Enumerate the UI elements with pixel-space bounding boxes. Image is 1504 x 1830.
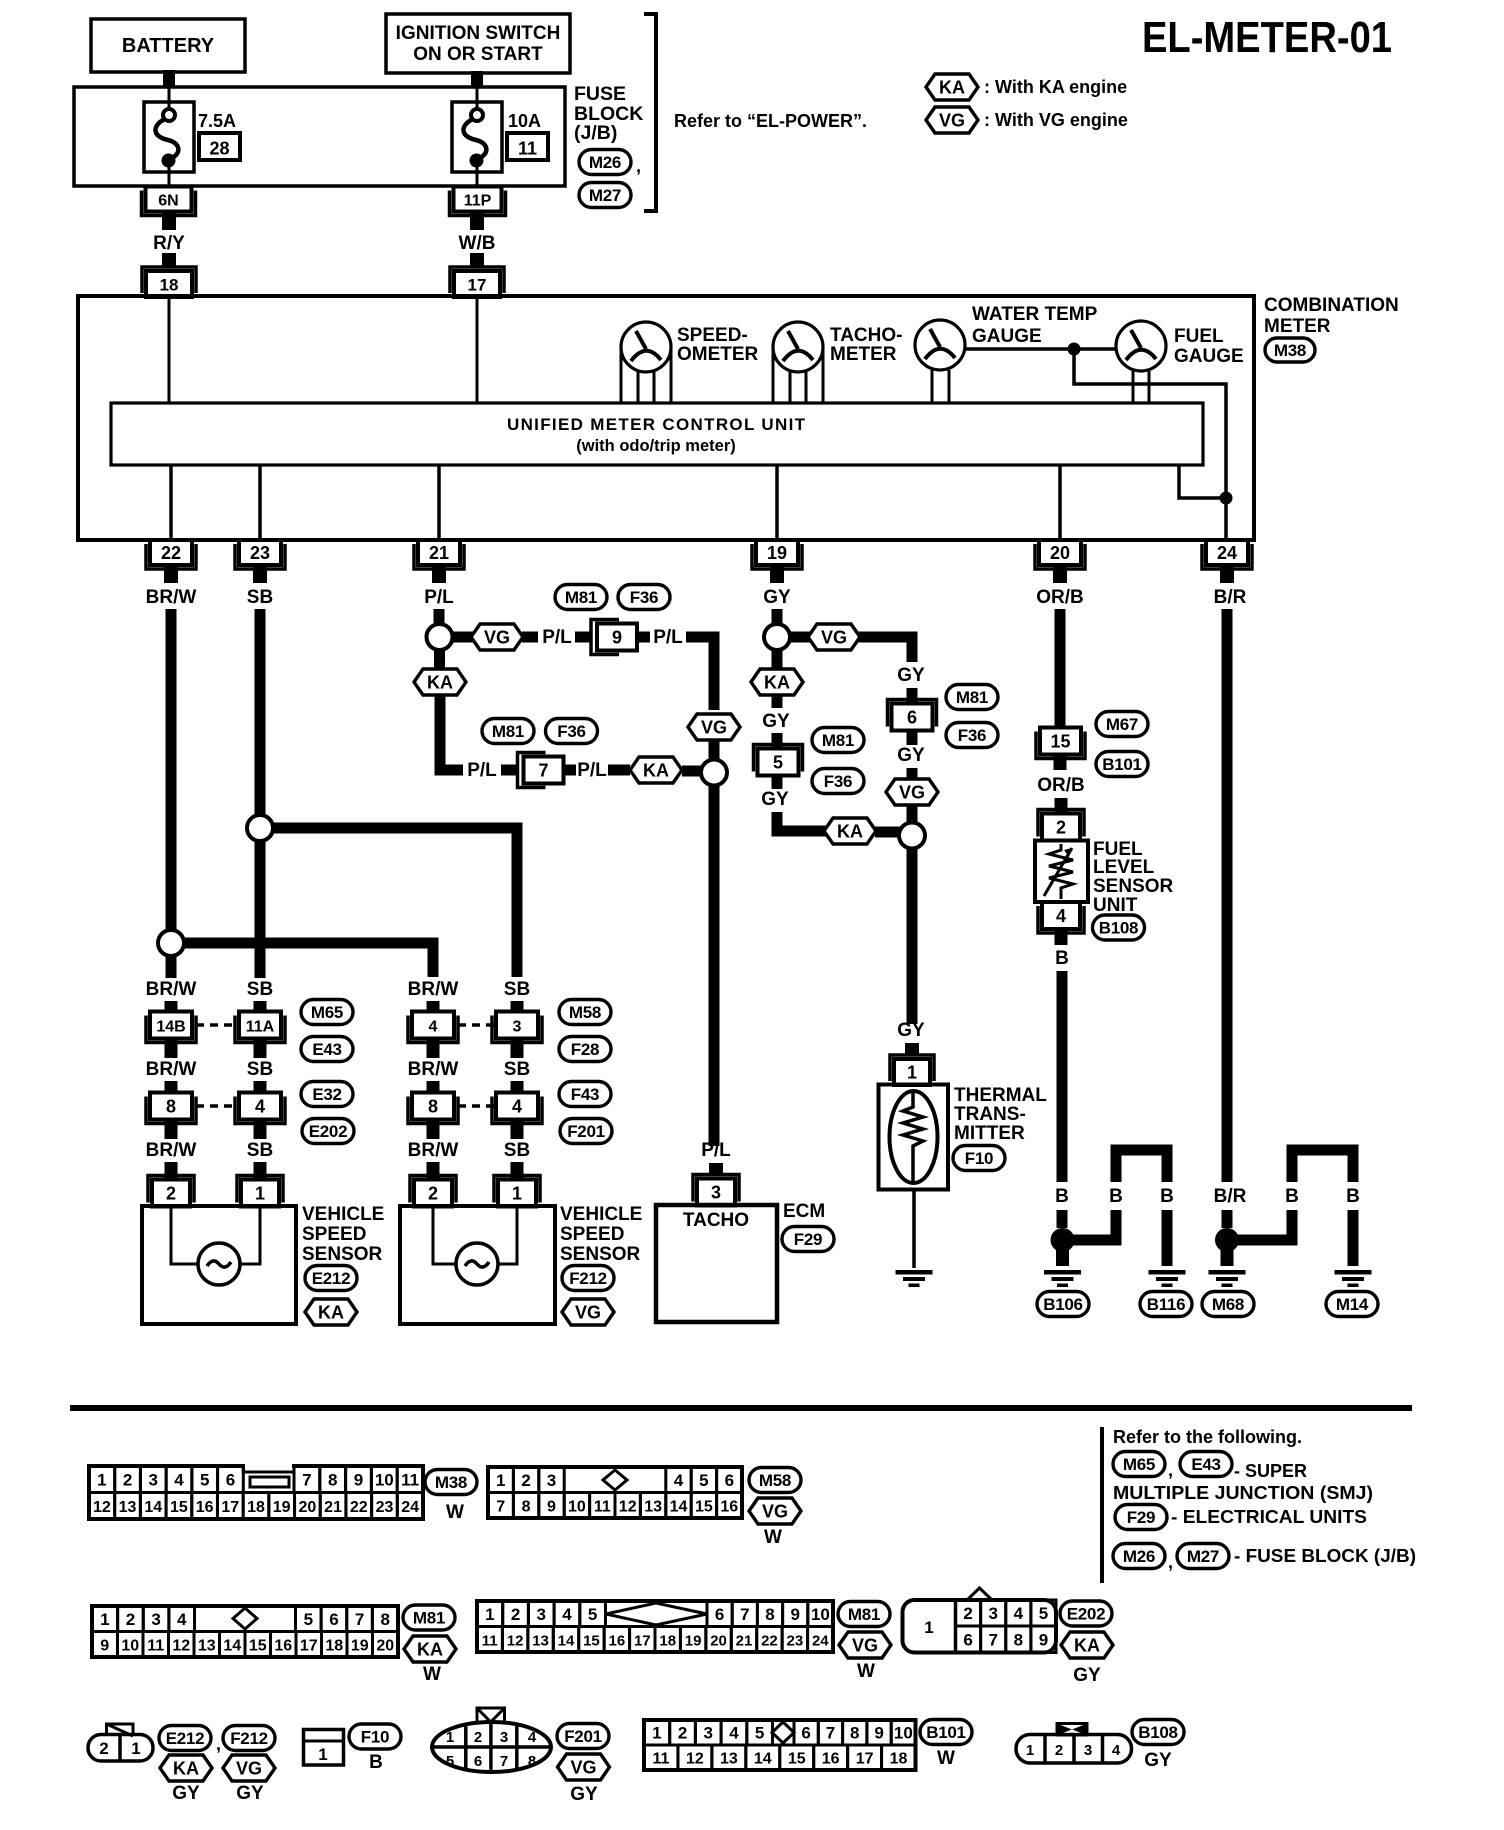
connector 21 on combination meter <box>414 540 464 569</box>
svg-text:KA: KA <box>318 1303 344 1323</box>
svg-text:5: 5 <box>200 1470 209 1489</box>
KA badge on GY branch <box>751 669 803 695</box>
svg-text:2: 2 <box>166 1184 176 1204</box>
svg-text:B/R: B/R <box>1214 587 1247 608</box>
svg-text:11: 11 <box>594 1498 611 1515</box>
badge E212 <box>305 1266 357 1291</box>
badge F201 smj <box>560 1119 612 1144</box>
svg-text:5: 5 <box>699 1471 708 1490</box>
svg-text:6: 6 <box>715 1605 724 1624</box>
badge M38 pinout <box>425 1470 477 1495</box>
svg-text:TRANS-: TRANS- <box>954 1104 1026 1125</box>
badge E32 <box>301 1082 353 1107</box>
svg-text:VG: VG <box>575 1303 601 1323</box>
svg-text:F10: F10 <box>361 1728 389 1747</box>
svg-text:M26: M26 <box>1123 1547 1155 1566</box>
svg-text:GY: GY <box>1073 1665 1101 1686</box>
svg-text:4: 4 <box>512 1097 522 1117</box>
dashed link 4-3 <box>458 1023 495 1027</box>
svg-text:21: 21 <box>429 543 449 563</box>
svg-text:3: 3 <box>513 1019 522 1036</box>
svg-text:10: 10 <box>894 1724 913 1743</box>
wire junction to connector 24 <box>1224 498 1228 538</box>
svg-text:6: 6 <box>963 1630 972 1649</box>
svg-text:GY: GY <box>172 1783 200 1804</box>
connector pinout M81KA grid <box>92 1606 398 1657</box>
svg-text:6: 6 <box>801 1724 810 1743</box>
wire stub below 15 <box>1054 755 1067 770</box>
svg-text:F29: F29 <box>1127 1508 1155 1527</box>
wire VG to junction circle <box>709 740 720 759</box>
junction circle P/L <box>427 624 453 650</box>
svg-text:FUEL: FUEL <box>1174 326 1224 347</box>
svg-text:VG: VG <box>821 628 847 648</box>
badge B108 <box>1093 915 1145 940</box>
svg-text:1: 1 <box>100 1610 109 1629</box>
wire label to connector 7 <box>501 765 518 776</box>
badge E202 smj <box>302 1119 354 1144</box>
svg-text:P/L: P/L <box>653 627 683 648</box>
wire KA down and right <box>440 695 463 770</box>
badge F36 right of 5 <box>812 769 864 794</box>
svg-text:5: 5 <box>755 1724 764 1743</box>
wire stub below 5 <box>772 776 783 789</box>
svg-text:2: 2 <box>428 1184 438 1204</box>
svg-text:24: 24 <box>812 1632 829 1649</box>
svg-text:W: W <box>446 1502 464 1523</box>
connector 19 on combination meter <box>752 540 802 569</box>
svg-text:2: 2 <box>474 1729 482 1746</box>
svg-text:B108: B108 <box>1138 1723 1177 1742</box>
svg-text:18: 18 <box>890 1751 908 1768</box>
svg-text:8: 8 <box>166 1097 176 1117</box>
badge KA M81 pinout <box>404 1636 456 1662</box>
svg-text:GAUGE: GAUGE <box>1174 346 1244 367</box>
wire label to connector 9 <box>575 632 592 643</box>
wire unified to connector 23 <box>258 465 262 538</box>
connector 11P on fuse block <box>450 187 506 216</box>
connector 23 on combination meter <box>235 540 285 569</box>
svg-text:Refer to “EL-POWER”.: Refer to “EL-POWER”. <box>674 111 867 131</box>
svg-text:15: 15 <box>249 1637 267 1654</box>
svg-text:6: 6 <box>329 1610 338 1629</box>
svg-text:16: 16 <box>822 1751 840 1768</box>
connector badge M26 <box>579 150 631 175</box>
wire stub to SMJ row1 col4 <box>511 1001 524 1013</box>
fuel gauge label <box>1174 326 1244 367</box>
ground B106 <box>1044 1270 1081 1287</box>
badge F10 <box>953 1146 1005 1171</box>
connector 7 M81-F36 <box>518 753 564 788</box>
svg-text:19: 19 <box>685 1632 702 1649</box>
badge M65 <box>301 1000 353 1025</box>
svg-text:VG: VG <box>484 628 510 648</box>
dashed link row2 right <box>458 1104 495 1108</box>
wire B down <box>1057 971 1068 1182</box>
wire stub to row2 col1 <box>165 1081 178 1094</box>
wire KA to GY junction <box>875 827 900 838</box>
svg-text:SB: SB <box>247 1140 273 1161</box>
svg-text:8: 8 <box>850 1724 859 1743</box>
svg-text:BR/W: BR/W <box>408 1059 459 1080</box>
svg-text:EL-METER-01: EL-METER-01 <box>1142 13 1392 62</box>
vss1 generator symbol <box>198 1243 240 1285</box>
svg-text:4: 4 <box>1014 1604 1024 1623</box>
svg-text:9: 9 <box>790 1605 799 1624</box>
svg-text:BR/W: BR/W <box>408 979 459 1000</box>
water temp gauge <box>915 320 965 370</box>
svg-text:R/Y: R/Y <box>153 233 185 254</box>
connector 5 M81-F36 <box>754 745 803 776</box>
svg-text:3: 3 <box>547 1471 556 1490</box>
svg-text:OR/B: OR/B <box>1037 775 1085 796</box>
badge F36 right of 6 <box>946 723 998 748</box>
svg-text:SENSOR: SENSOR <box>302 1244 383 1265</box>
svg-text:12: 12 <box>172 1637 190 1654</box>
tachometer gauge <box>773 322 823 372</box>
badge F201 pinout <box>557 1724 609 1749</box>
svg-text:SPEED-: SPEED- <box>677 325 748 346</box>
svg-text:4: 4 <box>174 1470 184 1489</box>
badge F212 <box>562 1266 614 1291</box>
svg-text:M81: M81 <box>565 588 597 607</box>
KA badge before junction <box>630 757 682 783</box>
svg-text:9: 9 <box>354 1470 363 1489</box>
connector 11A SMJ <box>235 1012 285 1043</box>
legend VG badge <box>926 107 978 133</box>
svg-text:8: 8 <box>765 1605 774 1624</box>
wire P/L down to tacho <box>709 785 720 1146</box>
svg-text:22: 22 <box>350 1499 368 1516</box>
svg-text:W: W <box>937 1748 955 1769</box>
connector 22 on combination meter <box>146 540 196 569</box>
svg-text:FUSE: FUSE <box>574 83 626 105</box>
svg-text:B: B <box>1055 1186 1069 1207</box>
svg-text:11: 11 <box>653 1751 670 1768</box>
svg-text:E202: E202 <box>1067 1605 1106 1624</box>
svg-text:3: 3 <box>988 1604 997 1623</box>
wire B to junction <box>1057 1210 1068 1228</box>
wire ignition to fuse block <box>471 71 483 88</box>
svg-text:2: 2 <box>99 1739 108 1758</box>
wire stub below SMJ row1 col1 <box>165 1039 178 1058</box>
badge M65 refer <box>1113 1452 1165 1477</box>
dashed link 14B-11A <box>196 1023 238 1027</box>
fuse F28 7.5A <box>144 88 194 187</box>
svg-text:5: 5 <box>773 753 783 773</box>
fuel level sensor label <box>1093 839 1174 916</box>
wire GY to VG hex <box>907 768 918 779</box>
junction circle P/L right <box>701 760 727 786</box>
wire stub below row2 col4 <box>511 1120 524 1139</box>
svg-text:M27: M27 <box>589 186 621 205</box>
svg-text:GY: GY <box>236 1783 264 1804</box>
connector 8 row2 <box>146 1093 196 1124</box>
svg-text:LEVEL: LEVEL <box>1093 857 1155 878</box>
svg-text:11: 11 <box>518 139 537 159</box>
svg-text:16: 16 <box>720 1498 738 1515</box>
connector 14B SMJ <box>146 1012 196 1043</box>
wire from junction down right to 24 column <box>1074 349 1226 498</box>
wire stub above tacho connector <box>709 1163 723 1176</box>
svg-text:16: 16 <box>274 1637 292 1654</box>
wire stub above 17 <box>470 253 484 268</box>
badge F28 <box>559 1037 611 1062</box>
wire stub to row3 col3 <box>427 1162 440 1178</box>
svg-text:F212: F212 <box>230 1729 268 1748</box>
svg-text:SPEED: SPEED <box>560 1224 624 1245</box>
svg-text:3: 3 <box>1084 1742 1092 1759</box>
svg-text:F43: F43 <box>571 1085 599 1104</box>
wire label to KA <box>608 765 630 776</box>
connector pinout B101 <box>644 1720 916 1770</box>
svg-text:4: 4 <box>674 1471 684 1490</box>
svg-text:13: 13 <box>119 1499 137 1516</box>
svg-text:9: 9 <box>612 628 622 648</box>
svg-text:14: 14 <box>670 1498 688 1515</box>
svg-text:11P: 11P <box>464 193 492 210</box>
wire GY down to thermal transmitter <box>907 848 918 1024</box>
wire 23 down to junction <box>255 609 266 815</box>
svg-text:2: 2 <box>1055 1742 1063 1759</box>
wire 7 to label <box>564 765 577 776</box>
svg-text:ON OR START: ON OR START <box>413 44 543 65</box>
svg-text:B101: B101 <box>1102 755 1141 774</box>
svg-text:12: 12 <box>619 1498 637 1515</box>
vehicle speed sensor 2 box <box>400 1206 555 1324</box>
connector 24 on combination meter <box>1202 540 1252 569</box>
wire stub to row2 col3 <box>427 1081 440 1094</box>
bracket right of fuse block <box>644 14 656 211</box>
svg-text:F212: F212 <box>569 1269 607 1288</box>
junction circle SB <box>247 815 273 841</box>
svg-text:17: 17 <box>856 1751 874 1768</box>
svg-text:20: 20 <box>1050 543 1070 563</box>
speedometer gauge <box>621 322 671 372</box>
fuel gauge <box>1116 321 1166 371</box>
connector 8 row2 <box>408 1093 458 1124</box>
svg-text:2: 2 <box>678 1724 687 1743</box>
tacho ECM box <box>656 1205 777 1322</box>
svg-text:THERMAL: THERMAL <box>954 1085 1047 1106</box>
svg-text:24: 24 <box>401 1499 419 1516</box>
badge E212 pinout <box>159 1726 211 1751</box>
svg-text:GY: GY <box>1144 1750 1172 1771</box>
svg-text:15: 15 <box>170 1499 188 1516</box>
svg-text:1: 1 <box>924 1618 933 1637</box>
svg-text:E43: E43 <box>312 1040 341 1059</box>
svg-text:2: 2 <box>1056 818 1066 838</box>
dashed link row2 left <box>196 1104 238 1108</box>
wire stub to row2 col4 <box>511 1081 524 1094</box>
connector 3 on tacho <box>693 1175 739 1206</box>
svg-text:11: 11 <box>482 1632 498 1649</box>
svg-text:14: 14 <box>144 1499 162 1516</box>
svg-text:SB: SB <box>504 979 530 1000</box>
svg-text:1: 1 <box>496 1471 505 1490</box>
connector 4 SMJ <box>408 1012 458 1043</box>
svg-text:F36: F36 <box>958 726 986 745</box>
badge F36 above 7 <box>546 719 598 744</box>
connector 1 on speed sensor <box>237 1176 283 1207</box>
ground badge M14 <box>1326 1292 1378 1317</box>
svg-text:10: 10 <box>121 1637 139 1654</box>
badge M26 refer <box>1113 1544 1165 1569</box>
vehicle speed sensor 2 label <box>560 1204 642 1265</box>
connector 6N on fuse block <box>142 187 196 216</box>
VG badge below 6 <box>886 779 938 805</box>
svg-text:3: 3 <box>704 1724 713 1743</box>
wire 9 to label <box>637 632 650 643</box>
svg-text:(J/B): (J/B) <box>574 122 617 144</box>
svg-text:3: 3 <box>500 1729 508 1746</box>
svg-text:17: 17 <box>468 276 487 295</box>
svg-text:3: 3 <box>149 1470 158 1489</box>
svg-text:W: W <box>857 1661 875 1682</box>
svg-text:- SUPER: - SUPER <box>1234 1461 1307 1481</box>
badge F29 refer <box>1115 1505 1167 1530</box>
tachometer legs <box>773 349 823 403</box>
svg-text:17: 17 <box>221 1499 239 1516</box>
svg-text:VG: VG <box>852 1636 878 1656</box>
badge E43 <box>301 1037 353 1062</box>
svg-text:VG: VG <box>899 783 925 803</box>
wire KA to junction circle <box>682 766 701 777</box>
wire 21 down to junction <box>434 609 445 624</box>
wire stub above 18 <box>162 253 176 268</box>
svg-text:2: 2 <box>511 1605 520 1624</box>
connector pinout M58 grid <box>488 1467 742 1518</box>
badge M81 pinout VG <box>838 1602 890 1627</box>
svg-text:W: W <box>764 1527 782 1548</box>
svg-text:1: 1 <box>318 1745 327 1764</box>
wire right leg down to ground M14 <box>1348 1210 1359 1266</box>
svg-text:E202: E202 <box>309 1122 348 1141</box>
wire stub above thermal connector <box>905 1043 919 1056</box>
KA branch from GY junction <box>772 650 783 668</box>
svg-text:GY: GY <box>761 789 789 810</box>
svg-text:14: 14 <box>558 1632 575 1649</box>
badge F43 <box>559 1082 611 1107</box>
connector 17 on combination meter <box>450 267 504 297</box>
svg-text:COMBINATION: COMBINATION <box>1264 295 1399 316</box>
wire stub below SMJ row1 col2 <box>254 1039 267 1058</box>
svg-text:VG: VG <box>762 1502 788 1522</box>
svg-text:B: B <box>1160 1186 1174 1207</box>
wire VG right and down <box>858 637 912 662</box>
connector pinout M81VG grid <box>477 1601 833 1652</box>
svg-text:F29: F29 <box>794 1230 822 1249</box>
connector 4 on fuel level sensor <box>1038 902 1084 933</box>
svg-text:OMETER: OMETER <box>677 344 759 365</box>
wire left leg up <box>1116 1150 1167 1182</box>
wire stub below row2 col1 <box>165 1120 178 1139</box>
water temp gauge legs <box>932 370 949 403</box>
VG badge on vertical P/L <box>688 714 740 740</box>
wire stub below SMJ row1 col4 <box>511 1039 524 1058</box>
svg-text:BR/W: BR/W <box>146 587 197 608</box>
svg-text:METER: METER <box>830 344 897 365</box>
svg-text:8: 8 <box>522 1498 531 1515</box>
badge E202 pinout <box>1060 1601 1112 1626</box>
svg-text:IGNITION SWITCH: IGNITION SWITCH <box>396 23 561 44</box>
wire SB branch right <box>273 828 517 977</box>
svg-text:8: 8 <box>328 1470 337 1489</box>
svg-text:- FUSE BLOCK (J/B): - FUSE BLOCK (J/B) <box>1234 1546 1416 1566</box>
ignition switch SW1 <box>386 14 570 73</box>
svg-text:B106: B106 <box>1043 1295 1082 1314</box>
svg-text:6: 6 <box>725 1471 734 1490</box>
svg-text:1: 1 <box>97 1470 106 1489</box>
svg-text:F28: F28 <box>571 1040 599 1059</box>
svg-text:SPEED: SPEED <box>302 1224 366 1245</box>
svg-text:7.5A: 7.5A <box>198 111 236 131</box>
svg-text:F36: F36 <box>630 588 658 607</box>
svg-text:F36: F36 <box>557 722 585 741</box>
wire BR/W below junction <box>166 956 177 978</box>
svg-text:BATTERY: BATTERY <box>122 35 215 57</box>
svg-text:KA: KA <box>427 673 453 693</box>
svg-text:P/L: P/L <box>701 1140 731 1161</box>
wire junction to ground M68 <box>1221 1250 1234 1266</box>
svg-text:SB: SB <box>504 1140 530 1161</box>
wire unified to connector 20 <box>1058 465 1062 538</box>
svg-text:1: 1 <box>907 1063 917 1083</box>
wire stub below row2 col2 <box>254 1120 267 1139</box>
svg-text:13: 13 <box>532 1632 549 1649</box>
badge F212 pinout <box>223 1726 275 1751</box>
tachometer label <box>830 325 902 365</box>
badge KA E212 <box>160 1755 212 1781</box>
svg-text:4: 4 <box>177 1610 187 1629</box>
svg-text:M58: M58 <box>569 1003 601 1022</box>
svg-text:14: 14 <box>223 1637 241 1654</box>
junction dot M68 <box>1215 1228 1239 1252</box>
svg-text:,: , <box>636 156 641 176</box>
badge F36 above 9 <box>618 585 670 610</box>
svg-text:B/R: B/R <box>1214 1186 1247 1207</box>
wire stub to connector 6 <box>907 688 918 704</box>
connector 4 row2 <box>492 1093 542 1124</box>
badge M81 right of 5 <box>812 728 864 753</box>
badge VG F201 <box>558 1754 610 1780</box>
svg-text:M81: M81 <box>413 1609 445 1628</box>
connector pinout B108 <box>1016 1724 1132 1764</box>
svg-text:SB: SB <box>247 979 273 1000</box>
junction circle BR/W <box>158 930 184 956</box>
svg-text:22: 22 <box>161 543 181 563</box>
badge M58 pinout <box>749 1468 801 1493</box>
connector pinout E202 <box>903 1588 1057 1653</box>
svg-text:F201: F201 <box>564 1727 602 1746</box>
wire stub below SMJ row1 col3 <box>427 1039 440 1058</box>
svg-text:2: 2 <box>521 1471 530 1490</box>
connector 1 on speed sensor <box>494 1176 540 1207</box>
refer SMJ text <box>1113 1461 1373 1503</box>
svg-text:13: 13 <box>644 1498 662 1515</box>
svg-text:7: 7 <box>355 1610 364 1629</box>
badge M81 above 9 <box>555 585 607 610</box>
svg-text:10: 10 <box>811 1605 830 1624</box>
ground badge B116 <box>1140 1292 1192 1317</box>
svg-text:E212: E212 <box>166 1729 205 1748</box>
connector badge M27 <box>579 183 631 208</box>
unified meter control unit U1 <box>111 403 1203 465</box>
svg-text:15: 15 <box>1050 732 1070 752</box>
connector pinout M38 grid <box>89 1462 423 1519</box>
svg-text:9: 9 <box>100 1637 109 1654</box>
svg-text:,: , <box>1168 1460 1173 1480</box>
